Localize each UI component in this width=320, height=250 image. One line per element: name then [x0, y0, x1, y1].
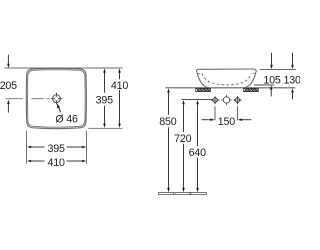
105 bottom arrow	[270, 86, 273, 90]
floor bar right	[191, 192, 207, 194]
leader arrow to drain	[59, 108, 61, 113]
bowl left rim hook	[197, 71, 200, 74]
horizontal centerline dashes	[6, 98, 50, 100]
svg-text:410: 410	[111, 80, 128, 92]
right faucet hole diamond	[233, 96, 242, 104]
svg-text:640: 640	[189, 147, 206, 159]
bottom extension line (right of basin)	[88, 127, 122, 129]
bowl rim top line	[196, 69, 256, 72]
center drain crosshair circle	[221, 95, 232, 106]
top extension line (bowl rim)	[260, 69, 296, 71]
bowl right rim hook	[253, 71, 256, 74]
hole extension line right	[236, 106, 238, 120]
basin outer outline	[26, 68, 86, 128]
top extension line	[4, 67, 122, 69]
dimension 205 (left)	[7, 55, 9, 113]
counter hatch block right	[243, 88, 258, 91]
svg-text:395: 395	[96, 95, 113, 107]
mounting holes extension line	[181, 99, 212, 101]
bottom-right vertical extension line	[86, 131, 88, 164]
floor bar middle	[175, 192, 190, 194]
svg-text:410: 410	[47, 157, 64, 169]
basin inner rim outline	[28, 70, 86, 127]
bowl left outer wall	[197, 73, 209, 88]
dimension 105 top arrow	[271, 53, 273, 65]
130 bottom arrow	[291, 88, 294, 92]
svg-text:Ø 46: Ø 46	[55, 114, 78, 126]
svg-text:105: 105	[263, 74, 280, 86]
counter hatch block left	[196, 88, 211, 91]
dimension 850	[167, 88, 170, 92]
dimension 395 horizontal (bottom)	[31, 146, 82, 148]
105 bottom extension line	[254, 84, 274, 86]
svg-text:395: 395	[47, 143, 64, 155]
counter top line	[165, 87, 295, 89]
dimension 410 horizontal (bottom)	[31, 160, 82, 162]
left faucet hole diamond	[211, 96, 220, 104]
bowl right outer wall	[244, 72, 256, 87]
dimension 395 vertical (right of basin)	[104, 73, 106, 124]
floor bar left	[159, 192, 174, 194]
svg-text:130: 130	[283, 74, 300, 86]
bowl inner bottom dashed line	[202, 73, 251, 85]
dimension 410 vertical (far right of basin)	[119, 73, 121, 124]
dimension 150	[202, 119, 211, 121]
svg-text:150: 150	[218, 116, 235, 128]
bottom-left vertical extension line	[26, 131, 28, 164]
dimension 640	[196, 100, 199, 104]
dimension 130 top arrow	[292, 53, 294, 65]
svg-text:850: 850	[159, 116, 176, 128]
dimension 720	[182, 100, 185, 104]
svg-text:205: 205	[0, 80, 17, 92]
svg-text:720: 720	[174, 133, 191, 145]
drain circle with crosshair	[51, 93, 63, 105]
hole extension line left	[214, 106, 216, 120]
